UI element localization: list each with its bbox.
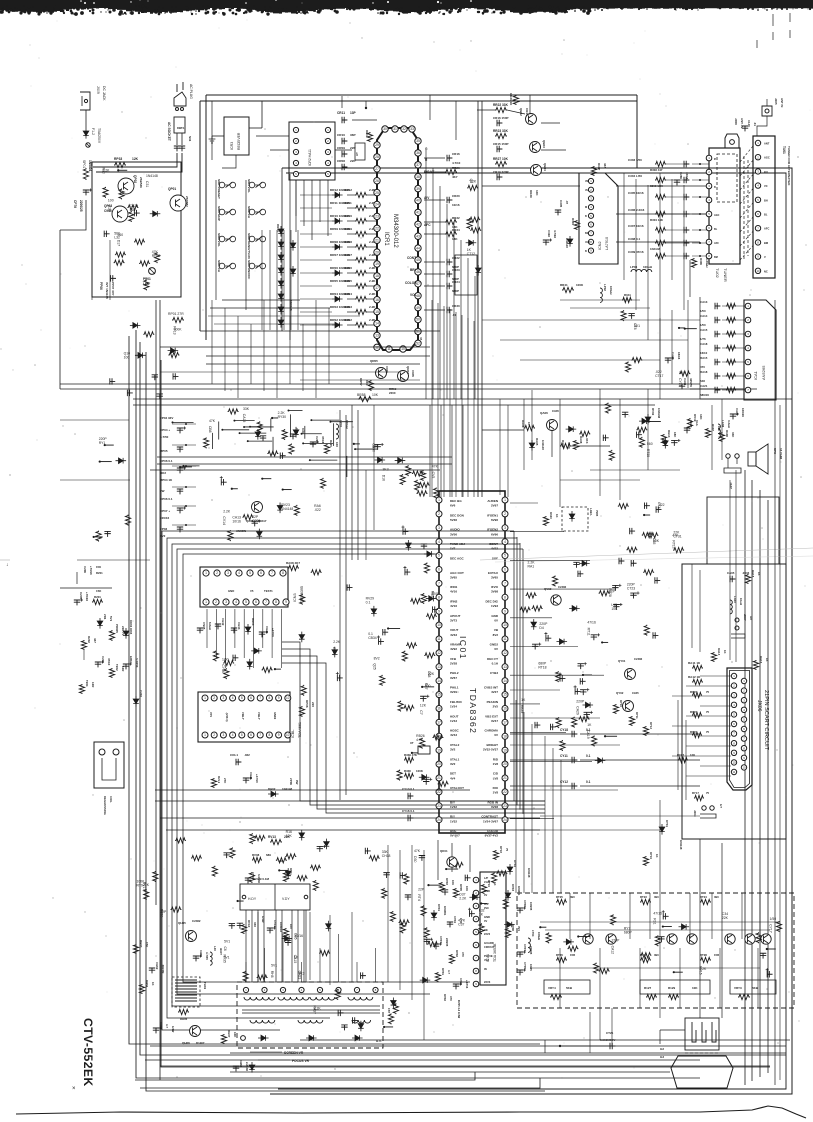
svg-text:100K: 100K (174, 327, 183, 331)
svg-text:ICR3: ICR3 (230, 142, 234, 150)
antenna jack JX05 (742, 98, 784, 136)
svg-text:7: 7 (259, 696, 261, 700)
svg-text:LY04: LY04 (531, 930, 535, 937)
wire mid-left texture (171, 410, 377, 477)
svg-text:25: 25 (375, 191, 379, 195)
svg-text:3V2: 3V2 (450, 748, 456, 752)
svg-text:RP01 27R: RP01 27R (168, 312, 184, 316)
svg-text:CB8: CB8 (208, 426, 212, 433)
svg-text:10K: 10K (692, 986, 698, 990)
components sync cluster2 (365, 848, 463, 901)
svg-text:7: 7 (259, 733, 261, 737)
svg-text:V: V (764, 255, 766, 259)
svg-text:QK01: QK01 (440, 849, 448, 853)
wire top frame drops (430, 95, 482, 186)
wire bottom mid verticals (310, 845, 424, 1040)
svg-text:100uH: 100uH (643, 265, 652, 269)
svg-text:RV10: RV10 (247, 920, 251, 928)
svg-text:R201: R201 (96, 571, 103, 575)
svg-text:.01: .01 (753, 122, 757, 126)
components under tuner (621, 310, 697, 387)
wire tuner agc (616, 186, 706, 242)
components sync cluster (249, 830, 329, 891)
wire audio out (690, 389, 744, 399)
resistor R306 6.33uH (691, 258, 709, 268)
svg-text:1K: 1K (479, 913, 484, 917)
svg-text:RR04: RR04 (344, 292, 352, 296)
svg-text:2V28: 2V28 (450, 661, 457, 665)
svg-text:9: 9 (278, 696, 280, 700)
wire diode matrix verticals (262, 230, 298, 330)
mark left edge arrow (0, 560, 10, 568)
svg-text:C2482: C2482 (192, 919, 201, 923)
svg-text:DET: DET (450, 772, 456, 776)
svg-text:D4: D4 (539, 626, 543, 630)
svg-text:6: 6 (260, 571, 262, 575)
tuner TU02 (706, 118, 744, 282)
svg-text:4: 4 (238, 571, 240, 575)
svg-text:38: 38 (416, 175, 420, 179)
svg-text:AFC: AFC (424, 223, 431, 227)
svg-text:47/16: 47/16 (321, 436, 325, 444)
svg-text:SW5 SKIP: SW5 SKIP (217, 206, 221, 221)
svg-text:100/35: 100/35 (529, 902, 533, 911)
components bottom mid (390, 868, 514, 947)
components right of ICR1 col2 (466, 179, 482, 276)
svg-text:RGB IN: RGB IN (488, 800, 499, 804)
svg-text:QH06: QH06 (182, 1041, 190, 1045)
svg-text:BR58: BR58 (357, 393, 366, 397)
svg-text:20: 20 (437, 762, 441, 766)
svg-text:CR22: CR22 (452, 256, 460, 260)
svg-text:PHIL1: PHIL1 (450, 686, 459, 690)
wire tda right pin stubs (510, 503, 618, 819)
svg-text:AGC OUT: AGC OUT (450, 571, 464, 575)
svg-text:V5: V5 (250, 589, 254, 593)
svg-text:680P: 680P (624, 930, 633, 934)
wire scart verticals (678, 564, 700, 800)
svg-text:.022: .022 (658, 503, 665, 507)
svg-text:×: × (72, 1086, 76, 1092)
components below rgb (481, 846, 531, 894)
svg-text:RT18: RT18 (538, 665, 546, 669)
svg-text:RR57: RR57 (359, 378, 363, 386)
svg-text:220/16: 220/16 (160, 516, 170, 520)
wire bus bottom d (150, 1045, 786, 1047)
svg-text:DY02: DY02 (513, 860, 517, 867)
svg-text:CH46: CH46 (249, 772, 253, 780)
resistors RY10-RY12 (613, 700, 653, 736)
wire bus h4 (133, 404, 655, 406)
svg-text:ICN2: ICN2 (598, 241, 602, 250)
svg-text:RR02: RR02 (344, 318, 352, 322)
svg-text:CR11: CR11 (337, 111, 345, 115)
components PR105 column (109, 620, 143, 707)
svg-text:CONTRAST: CONTRAST (481, 815, 498, 819)
label RV02 470 (443, 994, 461, 1019)
dashed link tuner (744, 156, 748, 260)
svg-text:CA18: CA18 (242, 414, 246, 423)
svg-text:T201: T201 (85, 680, 89, 687)
capacitor CH61 (193, 946, 223, 965)
wire bus left vertical (129, 336, 540, 1044)
svg-text:3V56: 3V56 (450, 532, 457, 536)
transistors QT01-QT07 output pairs (583, 934, 771, 944)
components RV19 (687, 414, 735, 442)
svg-text:22K: 22K (722, 916, 729, 920)
svg-text:1V24-3V67: 1V24-3V67 (483, 819, 498, 823)
svg-text:28: 28 (375, 155, 379, 159)
svg-text:LV8: LV8 (493, 776, 499, 780)
svg-text:RT28: RT28 (700, 953, 707, 957)
svg-text:VRAMP: VRAMP (450, 643, 461, 647)
diodes DR03-DR13 1N4148 (276, 224, 296, 328)
svg-text:3V65: 3V65 (491, 575, 498, 579)
svg-text:QB04: QB04 (543, 163, 547, 171)
svg-text:C/D: C/D (493, 772, 499, 776)
svg-text:TH01: TH01 (203, 982, 207, 989)
svg-text:447: 447 (93, 638, 97, 643)
wire bus right vertical (759, 490, 761, 1077)
svg-text:RR26: RR26 (452, 166, 460, 170)
svg-text:CA22: CA22 (735, 408, 739, 416)
svg-text:26: 26 (375, 179, 379, 183)
svg-text:10/16: 10/16 (452, 203, 460, 207)
connector AC plug (174, 82, 193, 111)
svg-text:M34300-012: M34300-012 (392, 214, 398, 248)
svg-text:1: 1 (205, 600, 207, 604)
wire icr2 receiver links (212, 101, 328, 240)
svg-text:40: 40 (416, 199, 420, 203)
svg-text:8: 8 (275, 600, 277, 604)
svg-text:RY19: RY19 (649, 852, 653, 859)
svg-text:4V4: 4V4 (450, 776, 456, 780)
svg-text:+47/10: +47/10 (271, 628, 275, 637)
wire bus h3 (133, 398, 792, 400)
svg-text:1V8: 1V8 (493, 791, 499, 795)
svg-text:32: 32 (402, 127, 406, 131)
svg-text:FBL/500: FBL/500 (450, 700, 462, 704)
svg-text:CR08: CR08 (337, 159, 345, 163)
svg-text:47/16: 47/16 (587, 621, 596, 625)
svg-text:R202: R202 (87, 636, 91, 643)
wire bus h2 (60, 388, 757, 390)
svg-text:4.7/16: 4.7/16 (553, 230, 557, 238)
svg-text:CY05: CY05 (523, 962, 527, 969)
svg-text:30: 30 (383, 127, 387, 131)
svg-text:.022: .022 (655, 370, 662, 374)
svg-text:JX07: JX07 (743, 614, 747, 621)
svg-text:2: 2 (438, 512, 440, 516)
svg-text:TUNE ADJ: TUNE ADJ (450, 542, 465, 546)
svg-text:5V1: 5V1 (224, 939, 230, 943)
svg-text:CT17: CT17 (655, 374, 663, 378)
svg-text:HOSC: HOSC (450, 729, 460, 733)
svg-text:B: B (585, 250, 587, 253)
svg-text:QA06: QA06 (540, 411, 548, 415)
svg-text:R330: R330 (404, 769, 411, 773)
svg-text:RP33: RP33 (114, 157, 122, 161)
svg-text:21PIN SCART CIRCUIT: 21PIN SCART CIRCUIT (763, 690, 769, 751)
LED PP01 (143, 268, 155, 286)
svg-text:4: 4 (438, 540, 440, 544)
transistor QP01 2SD882 (168, 187, 189, 211)
svg-text:15: 15 (437, 693, 441, 697)
IC ICV1 TDA3653B vertical output (473, 872, 506, 987)
components DV02 1N4148 (645, 408, 677, 444)
svg-text:VRY3: VRY3 (734, 986, 742, 990)
svg-text:IFIN2: IFIN2 (450, 599, 458, 603)
svg-text:CIRCUIT: CIRCUIT (484, 945, 495, 949)
svg-text:100K: 100K (576, 283, 584, 287)
svg-text:R129: R129 (668, 986, 676, 990)
crystal XTAL 4.43 (402, 741, 430, 821)
components left of LA7910 (543, 200, 580, 248)
svg-text:ANT. IN: ANT. IN (740, 118, 744, 128)
svg-text:100: 100 (124, 356, 130, 360)
svg-text:RR29: RR29 (529, 190, 533, 198)
svg-text:IFOEN1: IFOEN1 (487, 513, 498, 517)
svg-text:0V: 0V (484, 919, 487, 923)
components below TDA8395 (197, 618, 275, 637)
svg-text:-(V20-1): -(V20-1) (225, 712, 229, 722)
svg-text:CH18: CH18 (382, 854, 391, 858)
svg-text:CH64: CH64 (159, 1022, 163, 1030)
svg-text:6: 6 (255, 600, 257, 604)
svg-text:AUDIO: AUDIO (450, 528, 460, 532)
transistor QB03 CR45 (530, 140, 547, 153)
wire tu01 links (740, 146, 753, 260)
svg-text:47K: 47K (672, 533, 679, 537)
resistor RH03 1K (133, 940, 149, 954)
svg-text:29: 29 (375, 143, 379, 147)
svg-text:C286: C286 (679, 172, 683, 179)
components mid right lower (520, 661, 593, 751)
svg-text:CN05: CN05 (202, 622, 206, 630)
svg-text:C945: C945 (411, 370, 415, 377)
svg-text:CA12: CA12 (610, 946, 614, 955)
transistor QP03 C945 (104, 204, 128, 222)
svg-text:RA1: RA1 (528, 564, 535, 568)
svg-text:RV11: RV11 (289, 868, 293, 875)
label SP01 (82, 160, 92, 195)
svg-text:1K: 1K (294, 956, 299, 960)
svg-text:DH13: DH13 (251, 618, 255, 626)
svg-text:1V32: 1V32 (450, 819, 457, 823)
IC ICR3 remote receiver (209, 117, 249, 155)
svg-text:10K: 10K (465, 886, 469, 891)
svg-text:RR27 10K: RR27 10K (493, 157, 509, 161)
transistor QK01 (440, 849, 457, 867)
svg-text:CY16 0.1: CY16 0.1 (402, 809, 415, 813)
svg-text:1K: 1K (151, 982, 155, 986)
svg-text:RR22 33K: RR22 33K (493, 103, 509, 107)
svg-text:10K: 10K (653, 539, 660, 543)
svg-text:2200: 2200 (389, 391, 396, 395)
svg-text:8V2: 8V2 (160, 534, 166, 538)
transistor QY01 (618, 657, 643, 680)
svg-text:GUARD: GUARD (484, 941, 494, 945)
wire agc (482, 430, 610, 457)
svg-text:RP06: RP06 (305, 700, 309, 708)
svg-text:75: 75 (706, 710, 710, 714)
svg-text:CA19: CA19 (586, 730, 590, 739)
svg-text:3: 3 (223, 696, 225, 700)
svg-text:VH: VH (585, 189, 589, 192)
svg-text:DEGAUSSING: DEGAUSSING (103, 796, 107, 815)
svg-text:GND2: GND2 (490, 643, 499, 647)
svg-text:15: 15 (503, 693, 507, 697)
svg-text:SCREEN VR: SCREEN VR (284, 1051, 304, 1055)
svg-text:27: 27 (375, 167, 379, 171)
svg-text:1: 1 (438, 498, 440, 502)
components bottom mid2 (313, 972, 431, 1031)
svg-text:QY02: QY02 (616, 691, 624, 695)
svg-text:1N4148: 1N4148 (541, 440, 545, 450)
svg-text:0V: 0V (484, 893, 487, 897)
svg-text:3.3/250: 3.3/250 (135, 658, 139, 668)
svg-text:RR23 33K: RR23 33K (493, 129, 509, 133)
svg-text:100: 100 (425, 684, 431, 688)
svg-text:16: 16 (375, 298, 379, 302)
svg-text:1V8: 1V8 (493, 762, 499, 766)
svg-text:DEC DGN: DEC DGN (450, 513, 464, 517)
frame: main outer right inner (278, 173, 786, 1089)
svg-text:CV11: CV11 (273, 920, 277, 927)
wire bus h1 (60, 383, 700, 385)
svg-text:QY01: QY01 (618, 659, 626, 663)
components left of TDA8362 mid (398, 591, 440, 712)
svg-text:RA15: RA15 (700, 356, 708, 360)
svg-text:XTAL2: XTAL2 (450, 743, 460, 747)
svg-text:1N4148: 1N4148 (650, 247, 661, 251)
svg-text:16/10: 16/10 (700, 351, 708, 355)
svg-text:L40: L40 (213, 946, 217, 951)
svg-text:22K: 22K (284, 835, 291, 839)
svg-text:CA18: CA18 (700, 342, 708, 346)
svg-text:BH: BH (764, 198, 768, 202)
svg-text:7: 7 (265, 600, 267, 604)
svg-text:2.2K: 2.2K (528, 560, 536, 564)
svg-text:C203: C203 (139, 690, 143, 697)
svg-text:DV02: DV02 (651, 408, 655, 416)
title CTV-552EK (81, 1018, 95, 1087)
svg-text:R306: R306 (699, 258, 703, 265)
wire h 331 (200, 330, 440, 332)
transistor QR05 (370, 359, 389, 379)
svg-text:RA08: RA08 (579, 436, 583, 444)
svg-text:CV07: CV07 (439, 936, 443, 943)
svg-text:CH44: CH44 (265, 626, 269, 634)
svg-text:4.7/35: 4.7/35 (205, 952, 209, 960)
wire bus right vertical (744, 470, 746, 1085)
svg-text:AGC: AGC (764, 156, 770, 160)
svg-text:PUL5E: PUL5E (484, 954, 493, 958)
svg-text:AC PLUG: AC PLUG (189, 84, 193, 99)
svg-text:ZP04 33V: ZP04 33V (160, 416, 173, 420)
svg-text:5V1: 5V1 (271, 964, 277, 968)
svg-text:R303 447: R303 447 (650, 168, 663, 172)
svg-text:CR16: CR16 (452, 152, 460, 156)
svg-text:R/O: R/O (493, 786, 499, 790)
svg-text:D16: D16 (382, 475, 386, 481)
svg-text:RT9: RT9 (137, 884, 143, 888)
svg-text:16/16: 16/16 (677, 352, 681, 360)
svg-text:14: 14 (503, 679, 507, 683)
svg-text:BU: BU (764, 170, 768, 174)
wire scart feeds (672, 676, 731, 776)
svg-text:RT11: RT11 (586, 628, 590, 636)
svg-text:RT25: RT25 (556, 895, 563, 899)
filter L1B3-7965 (543, 507, 599, 531)
svg-text:2V97: 2V97 (491, 504, 498, 508)
svg-text:IC01: IC01 (458, 636, 468, 660)
svg-text:9: 9 (285, 600, 287, 604)
svg-text:DA05: DA05 (535, 438, 539, 446)
wire hdy drops (252, 910, 304, 982)
wire bus bottom a (300, 1039, 790, 1041)
svg-text:390: 390 (714, 895, 719, 899)
svg-text:SP01: SP01 (82, 160, 86, 168)
svg-text:C2482: C2482 (558, 585, 567, 589)
transistor QB02 CR45 (519, 108, 537, 125)
svg-text:AGC: AGC (714, 214, 720, 217)
svg-text:PP07 4V7: PP07 4V7 (111, 282, 115, 296)
svg-text:CB34: CB34 (368, 636, 377, 640)
svg-text:1N4148: 1N4148 (146, 174, 158, 178)
svg-text:JX06: JX06 (756, 700, 762, 712)
components ZP04 zener column (160, 416, 196, 538)
svg-text:8V2: 8V2 (493, 633, 499, 637)
svg-text:VE: VE (585, 180, 589, 183)
svg-text:BRIGHT: BRIGHT (487, 743, 499, 747)
svg-text:2: 2 (213, 696, 215, 700)
svg-text:AC SOCKET: AC SOCKET (167, 122, 171, 141)
svg-text:4V4: 4V4 (517, 926, 521, 931)
svg-text:CY13 0.1: CY13 0.1 (402, 787, 415, 791)
svg-text:22: 22 (503, 790, 507, 794)
svg-text:6V96: 6V96 (491, 518, 498, 522)
wire bus right vertical (751, 480, 753, 1081)
svg-text:CV07: CV07 (523, 944, 527, 951)
svg-text:75: 75 (706, 690, 710, 694)
transistor QH05 (178, 919, 201, 942)
svg-text:R107: R107 (711, 424, 715, 431)
svg-text:RA18: RA18 (751, 570, 755, 578)
svg-text:9: 9 (278, 733, 280, 737)
components rgb cluster (572, 678, 617, 763)
svg-text:XTAL1: XTAL1 (450, 757, 460, 761)
svg-text:4.7: 4.7 (165, 1024, 169, 1028)
svg-text:+47/16: +47/16 (465, 980, 469, 989)
svg-text:24: 24 (375, 203, 379, 207)
svg-text:A/V: A/V (424, 196, 430, 200)
components QA05 bias (521, 420, 589, 451)
svg-text:680P: 680P (538, 661, 547, 665)
svg-text:UHF: UHF (585, 241, 591, 244)
svg-text:0V: 0V (494, 618, 498, 622)
svg-text:GND: GND (228, 589, 234, 593)
svg-text:RR11: RR11 (344, 201, 352, 205)
wire vamp internal (560, 893, 760, 1008)
svg-text:11: 11 (503, 637, 507, 641)
wire nested bus around chroma section (162, 531, 523, 1030)
svg-text:RH03: RH03 (139, 940, 143, 948)
svg-text:22: 22 (437, 790, 441, 794)
svg-text:0.1: 0.1 (586, 780, 591, 784)
svg-text:23: 23 (503, 804, 507, 808)
resistor BR57 (359, 378, 397, 395)
